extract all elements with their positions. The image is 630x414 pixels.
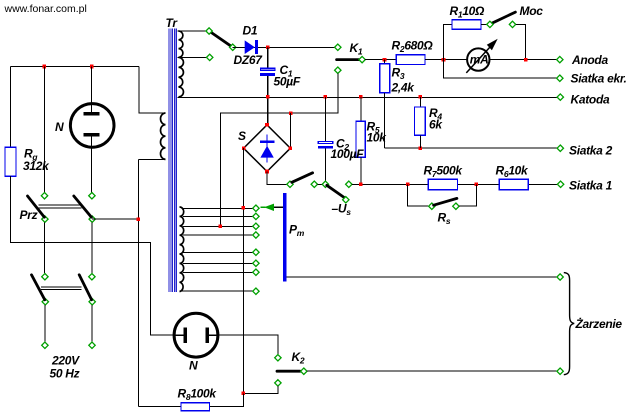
resistor Rg	[5, 147, 16, 176]
potentiometer Pm selector bar	[283, 193, 286, 281]
svg-text:50µF: 50µF	[274, 75, 301, 89]
svg-text:Katoda: Katoda	[571, 93, 610, 107]
wire lamp N2 to K2	[218, 335, 278, 354]
node Anoda terminal	[557, 56, 563, 62]
wire mains terminals	[44, 305, 46, 342]
switch mains DPST	[42, 274, 48, 280]
node junction R1-meter left	[442, 58, 446, 62]
wire bridge right vertex riser	[290, 113, 292, 148]
node junction R4-bus	[419, 95, 423, 99]
switch Rs shorting loop	[408, 184, 429, 206]
wire K1 to R2	[365, 59, 397, 61]
wire HV middle tap	[178, 56, 210, 58]
wire top-left mains bus	[11, 66, 140, 68]
wire R2 to meter junction	[425, 59, 467, 61]
node junction Prz-primary	[137, 217, 141, 221]
node Katoda terminal	[557, 94, 563, 100]
resistor R7 500k	[428, 179, 457, 190]
node junction R7 right	[475, 183, 479, 187]
switch -Us changeover	[287, 181, 293, 187]
svg-text:10k: 10k	[367, 131, 388, 145]
node Siatka 2 terminal	[557, 145, 563, 151]
transformer LV secondary winding	[180, 207, 184, 292]
wire K2 lower contact to R8 junction	[243, 386, 278, 393]
svg-text:N: N	[55, 120, 64, 134]
wire Prz to mains switch poles	[44, 223, 46, 274]
wire LV tap 2	[183, 215, 253, 217]
wire bridge bottom to Siatka1 switch	[267, 172, 287, 185]
node 220V terminals	[42, 342, 48, 348]
neon lamp N2	[174, 313, 218, 357]
svg-text:mA: mA	[470, 52, 489, 66]
svg-text:220V: 220V	[51, 354, 80, 368]
node junction R5-bus	[359, 95, 363, 99]
svg-text:DZ67: DZ67	[234, 53, 264, 67]
capacitor C2	[324, 97, 326, 141]
node bus junction left	[43, 65, 47, 69]
node Siatka 1 terminal	[557, 181, 563, 187]
svg-text:6k: 6k	[429, 118, 443, 132]
wire Pm output to Zarzenie top	[286, 276, 556, 278]
transformer Tr core	[169, 29, 176, 293]
resistor Rg branch wire	[10, 67, 12, 148]
tap terminal diamonds	[253, 205, 259, 211]
node Zarzenie top terminal	[557, 274, 563, 280]
wire Siatka 1 line	[352, 183, 557, 185]
transformer HV secondary winding	[179, 31, 184, 97]
wire Katoda bus	[178, 96, 557, 98]
node junction bridge-right riser	[289, 111, 293, 115]
wire LV tap 5	[183, 251, 253, 253]
node junction tap3	[219, 225, 223, 229]
svg-text:50 Hz: 50 Hz	[50, 367, 80, 381]
resistor R8 100k	[138, 393, 243, 406]
svg-text:R2680Ω: R2680Ω	[392, 39, 434, 55]
svg-text:Tr: Tr	[166, 16, 179, 30]
svg-text:Żarzenie: Żarzenie	[575, 316, 623, 331]
wire LV tap 1	[183, 207, 253, 209]
svg-text:Anoda: Anoda	[571, 53, 608, 67]
svg-text:www.fonar.com.pl: www.fonar.com.pl	[4, 3, 87, 15]
resistor R2 680ohm	[396, 55, 425, 65]
wire bus to Prz left contact	[43, 67, 45, 193]
brace Zarzenie	[564, 273, 574, 375]
resistor R4 6k	[419, 97, 421, 107]
wire K2 to Zarzenie bottom	[307, 370, 556, 372]
wire HV top lead	[178, 30, 210, 32]
svg-text:Prz: Prz	[20, 208, 38, 222]
svg-text:Moc: Moc	[520, 4, 544, 18]
svg-text:Siatka ekr.: Siatka ekr.	[571, 72, 627, 86]
wire K1 lower contact down and across to LV tap3	[220, 74, 337, 227]
capacitor C1	[267, 47, 269, 68]
wire LV tap 3	[183, 225, 253, 227]
svg-text:100µF: 100µF	[331, 147, 365, 161]
node junction R4-Siatka2	[419, 146, 423, 150]
switch Moc	[481, 23, 487, 25]
node junction C1-bus	[266, 95, 270, 99]
svg-text:R610k: R610k	[496, 164, 530, 180]
svg-text:N: N	[189, 359, 198, 373]
svg-text:Siatka 2: Siatka 2	[569, 144, 613, 158]
svg-text:R7500k: R7500k	[424, 164, 464, 180]
wire LV tap 4	[183, 234, 253, 236]
wire primary bottom to R8 line	[137, 159, 139, 406]
wiper arrow Pm	[274, 206, 284, 208]
resistor R6 10k	[499, 179, 528, 190]
svg-text:312k: 312k	[23, 159, 50, 173]
neon lamp N1	[70, 104, 114, 148]
node junction meter right	[524, 58, 528, 62]
wire LV bottom lead tap 8	[181, 290, 253, 292]
ammeter mA	[490, 59, 557, 61]
svg-text:R8100k: R8100k	[178, 387, 218, 403]
node junction C2-bus	[324, 95, 328, 99]
wire bridge left vertex down to R8 junction	[242, 148, 244, 393]
node junction R2-R3	[383, 58, 387, 62]
svg-text:Siatka 1: Siatka 1	[569, 179, 613, 193]
wire Prz right contact to primary-bottom vertical	[92, 218, 138, 220]
diode D1	[245, 40, 255, 54]
node bus junction right	[90, 65, 94, 69]
svg-text:D1: D1	[243, 24, 258, 38]
svg-text:R110Ω: R110Ω	[450, 4, 486, 20]
node junction R7 left	[406, 183, 410, 187]
wire Moc to meter right junction	[516, 24, 526, 59]
node D1 cathode junction	[266, 46, 270, 50]
transformer primary winding	[138, 67, 165, 160]
resistor R3 2.4k	[384, 60, 386, 64]
node junction R8-K2	[242, 392, 246, 396]
wire Rg bottom to lamp N2	[11, 176, 175, 335]
svg-text:S: S	[238, 129, 246, 143]
resistor R5 10k	[360, 97, 362, 121]
wire Siatka 2 line	[385, 147, 557, 149]
node junction R5-Siatka1	[359, 183, 363, 187]
resistor R1 10ohm branch	[444, 24, 453, 59]
wire LV tap 7	[183, 271, 253, 273]
wire D1 anode line	[233, 46, 338, 48]
svg-text:2,4k: 2,4k	[391, 81, 416, 95]
node Zarzenie bottom terminal	[557, 368, 563, 374]
wire Siatka ekr. branch	[444, 60, 557, 79]
node Siatka ekr. terminal	[557, 75, 563, 81]
wire LV tap 6	[183, 262, 253, 264]
switch HV tap selector	[209, 31, 233, 47]
node junction tap1	[242, 206, 246, 210]
